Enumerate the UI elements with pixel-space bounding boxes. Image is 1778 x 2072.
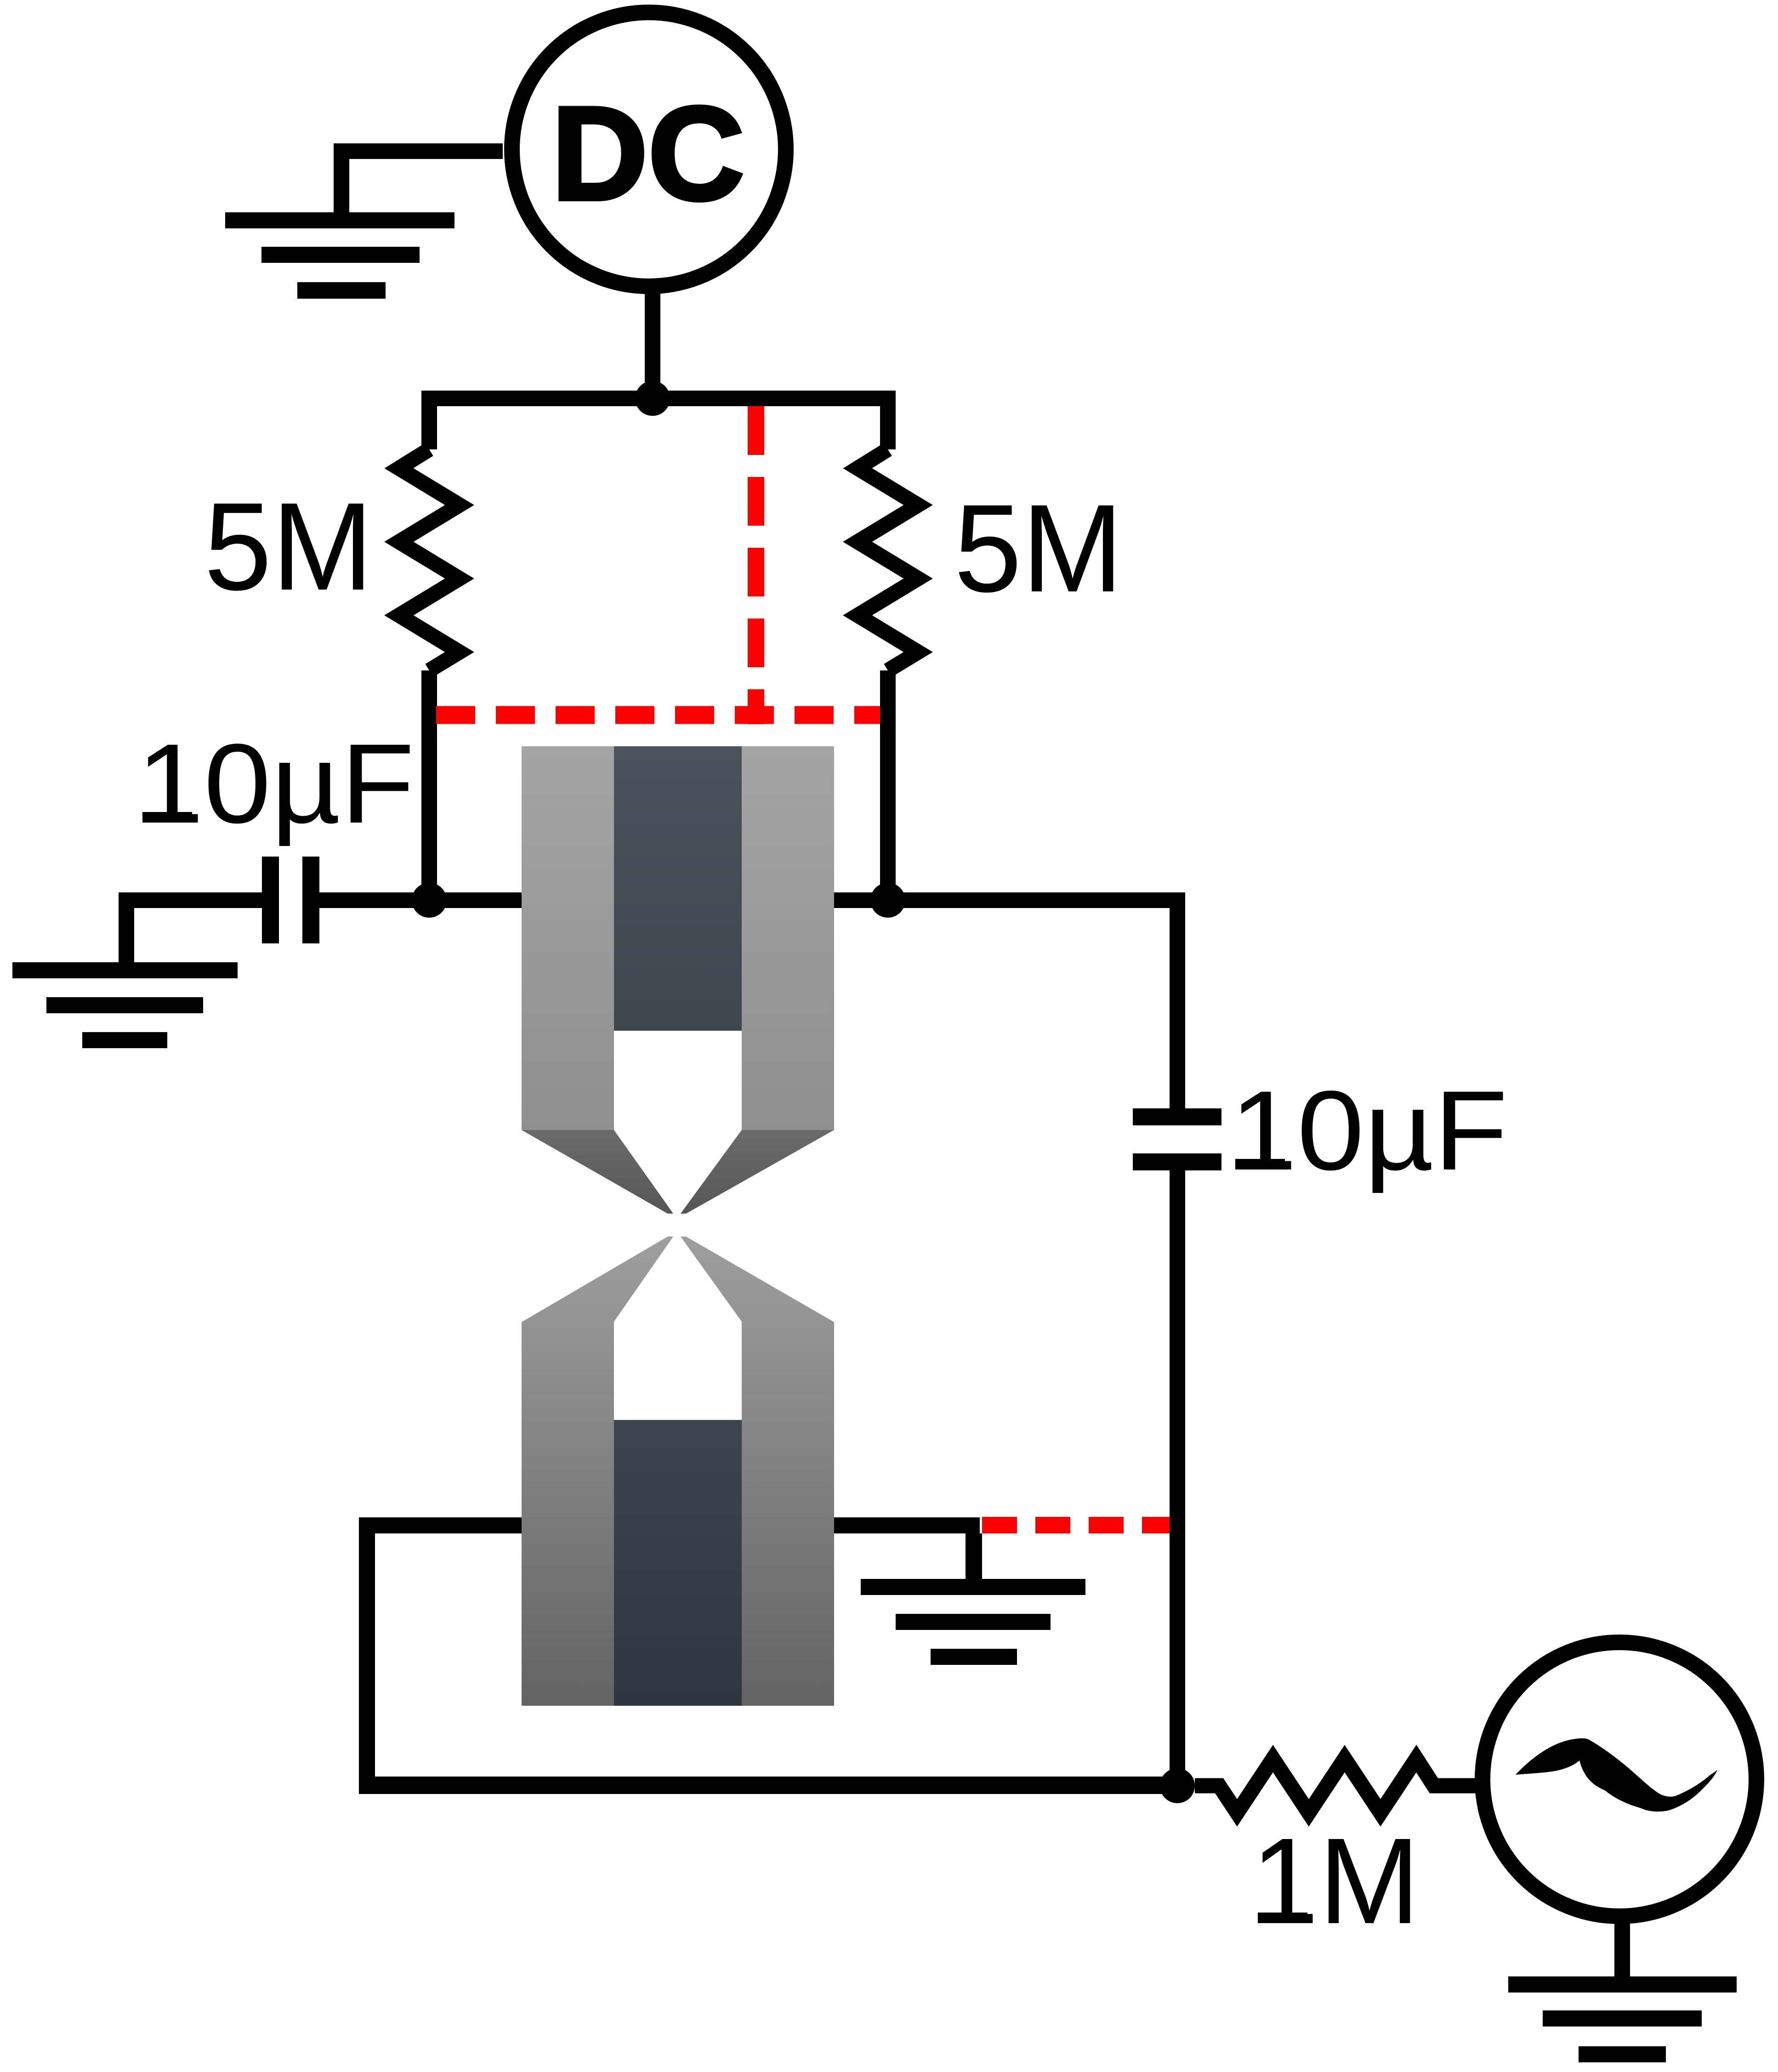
wire C1 right plate to node [319, 892, 522, 908]
foot serif for digit 1 (1M) [1258, 1913, 1307, 1923]
wire right branch vertical upper [1170, 892, 1185, 1108]
wire right branch vertical lower [1170, 1170, 1185, 1794]
top electrode left tip [522, 1130, 673, 1214]
capacitor C2 10uF (right) plates [1133, 1108, 1221, 1170]
wire right electrode to right branch corner [834, 892, 1185, 908]
node right electrode [870, 883, 905, 918]
red dashed T junction bar [748, 706, 764, 724]
wire DC source bottom lead [645, 276, 660, 398]
ground GND4 (bottom right) [1508, 1976, 1737, 2062]
AC source circle [1483, 1642, 1756, 1916]
wire capacitor C1 ground drop [119, 892, 134, 962]
wire left branch lower [421, 670, 437, 908]
DC voltage source V1 circle [512, 12, 786, 286]
wire GND3 stub [966, 1533, 982, 1579]
foot serif for digit 1 (right 10uF) [1235, 1159, 1285, 1169]
node bottom rail [1160, 1768, 1195, 1803]
resistor R2 5M (right) [858, 449, 918, 670]
foot serif for digit 1 (left 10uF) [142, 812, 192, 823]
resistor R3 1M [1195, 1759, 1477, 1813]
resistor R1 5M (left) [399, 449, 460, 670]
wire bottom electrode right lead [834, 1517, 980, 1533]
svg-text:10µF: 10µF [136, 721, 415, 847]
svg-text:5M: 5M [954, 478, 1123, 618]
node left electrode [412, 883, 447, 918]
wire bottom-left box: top segment [359, 1517, 522, 1533]
wire capacitor C1 left lead [119, 892, 262, 908]
wire bottom rail [359, 1777, 1177, 1794]
wire ground stub [334, 143, 349, 212]
svg-text:DC: DC [551, 79, 744, 228]
wire right branch lower [880, 670, 896, 908]
ground GND3 (bottom middle) [861, 1579, 1085, 1665]
wire right branch upper [880, 391, 896, 449]
red dashed horizontal line (upper) [436, 706, 880, 724]
wire AC ground stub [1614, 1921, 1630, 1976]
wire DC source to top-left ground [334, 143, 503, 159]
top electrode left column [522, 746, 614, 1130]
wire bottom-left box: left vertical [359, 1517, 375, 1794]
bottom electrode left body [522, 1237, 673, 1706]
bottom electrode dark slab [614, 1420, 742, 1706]
top electrode dark slab [614, 746, 742, 1031]
ground GND1 (top left) [225, 212, 454, 299]
red dashed horizontal line (lower) [982, 1517, 1170, 1533]
red dashed vertical line [748, 406, 764, 706]
top electrode right column [742, 746, 834, 1130]
bottom electrode right body [681, 1237, 834, 1706]
ground GND2 (left) [12, 962, 238, 1048]
svg-text:1M: 1M [1251, 1813, 1420, 1949]
top rail wire [421, 391, 896, 406]
svg-text:10µF: 10µF [1230, 1067, 1508, 1194]
node at top rail [635, 381, 670, 416]
svg-text:5M: 5M [204, 477, 373, 616]
wire left branch upper [421, 391, 437, 449]
top electrode right tip [681, 1130, 834, 1214]
AC source sine symbol [1516, 1738, 1717, 1811]
capacitor C1 10uF (left) plates [262, 857, 319, 943]
